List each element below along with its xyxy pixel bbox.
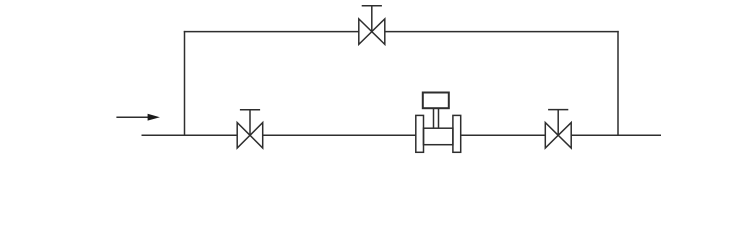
wire: main line between left valve and meter	[263, 134, 416, 136]
valve V3 (right block valve)	[545, 110, 571, 148]
wire: bypass top right segment	[385, 31, 619, 33]
wire: bypass top left segment	[184, 31, 359, 33]
wire: main line inlet segment	[142, 134, 238, 136]
wire: left bypass riser	[184, 31, 186, 135]
flow meter FE (transmitter head box)	[423, 93, 449, 109]
flow meter FE (transmitter neck)	[434, 109, 439, 129]
flow direction arrow	[116, 114, 159, 121]
wire: right bypass riser	[617, 31, 619, 135]
valve V1 (left block valve)	[237, 110, 263, 148]
wire: main line outlet segment	[571, 134, 661, 136]
wire: main line between meter and right valve	[461, 134, 546, 136]
flow meter FE (right flange)	[453, 115, 461, 152]
flow meter FE (left flange)	[416, 115, 424, 152]
flow meter FE (body)	[424, 128, 453, 145]
valve V2 (bypass valve, top)	[359, 6, 385, 45]
